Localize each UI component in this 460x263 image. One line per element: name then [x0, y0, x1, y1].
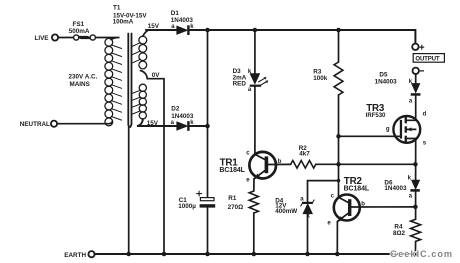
wire top rail from D1 to + output — [190, 30, 416, 44]
svg-text:LIVE: LIVE — [35, 35, 49, 42]
capacitor C1 1000u — [178, 191, 215, 210]
svg-text:1N4003: 1N4003 — [375, 78, 398, 85]
wire D4 to TR2 collector column — [308, 181, 339, 202]
svg-text:BC184L: BC184L — [344, 185, 370, 192]
svg-text:R1: R1 — [228, 195, 237, 202]
svg-text:RED: RED — [233, 81, 247, 88]
wire LED D3 to TR1 collector — [254, 87, 256, 154]
junction earth/TR2 emitter — [335, 252, 340, 257]
resistor R3 100k — [313, 62, 343, 95]
wire top rail left segment — [146, 29, 177, 31]
wire earth rail — [95, 253, 417, 255]
wire LIVE to transformer primary — [58, 37, 119, 39]
resistor R1 270ohm — [228, 191, 259, 213]
diode D5 1N4003 — [375, 71, 421, 104]
terminal NEUTRAL — [20, 121, 57, 129]
junction R2 wire / R3 column — [336, 162, 341, 167]
wire TR2 base to D6/R4 node — [351, 206, 415, 208]
junction top rail / rectifier — [205, 28, 210, 33]
svg-text:D1: D1 — [171, 10, 180, 17]
svg-text:d: d — [423, 112, 427, 118]
svg-text:T1: T1 — [113, 4, 121, 11]
wire rectifier column (top rail to D2 node) — [207, 30, 209, 126]
svg-text:NEUTRAL: NEUTRAL — [20, 121, 50, 128]
svg-text:270Ω: 270Ω — [228, 204, 244, 211]
svg-text:230V A.C.: 230V A.C. — [69, 74, 98, 81]
wire D6 to R4 — [415, 192, 417, 220]
wire secondary bottom to D2 — [137, 119, 177, 126]
OUTPUT label box — [413, 54, 444, 63]
svg-text:1N4003: 1N4003 — [171, 113, 194, 120]
junction earth/0V tap — [162, 252, 167, 257]
wire secondary top to rail — [143, 30, 149, 36]
junction gate wire — [336, 134, 341, 139]
svg-text:4k7: 4k7 — [299, 150, 310, 157]
transformer T1 core — [128, 34, 131, 128]
resistor R4 8R2 — [393, 219, 421, 241]
wire D5 to TR3 drain — [415, 96, 417, 121]
svg-text:FS1: FS1 — [73, 21, 85, 28]
wire transformer core screen to earth rail — [128, 127, 130, 254]
junction earth/core — [126, 252, 131, 257]
diode D1 1N4003 — [171, 10, 194, 35]
wire TR1 emitter to R1 — [253, 179, 255, 191]
wire TR1 base to R2 — [268, 163, 291, 165]
terminal output - — [413, 68, 424, 74]
label 230V A.C. MAINS — [69, 74, 98, 89]
svg-text:IRF530: IRF530 — [366, 113, 386, 119]
svg-text:BC184L: BC184L — [219, 167, 245, 174]
wire TR2 emitter to earth rail — [336, 221, 338, 254]
transformer T1 secondary lower winding — [132, 84, 146, 119]
svg-text:1N4003: 1N4003 — [384, 185, 407, 192]
wire R1 to earth rail — [253, 213, 255, 254]
svg-text:400mW: 400mW — [275, 208, 297, 215]
svg-text:D2: D2 — [171, 106, 180, 113]
svg-text:MAINS: MAINS — [70, 81, 90, 88]
svg-text:100k: 100k — [313, 75, 328, 82]
svg-text:g: g — [386, 127, 390, 133]
junction top rail / R3 — [336, 28, 341, 33]
svg-text:100mA: 100mA — [113, 19, 134, 26]
diode D2 1N4003 — [171, 106, 195, 131]
wire R2 to TR3 source node — [316, 163, 416, 165]
wire R3 to TR2 collector — [338, 95, 340, 197]
resistor R2 4k7 — [291, 145, 316, 168]
LED D3 2mA RED — [233, 68, 269, 93]
wire top rail to R3 — [338, 30, 340, 62]
svg-text:OUTPUT: OUTPUT — [415, 55, 439, 62]
wire TR3 source to D6 — [415, 139, 417, 181]
transistor TR1 BC184L — [219, 150, 281, 183]
diode D6 1N4003 — [384, 175, 419, 199]
wire D4 to earth rail — [307, 214, 309, 254]
mosfet TR3 IRF530 — [366, 103, 427, 146]
svg-text:D5: D5 — [379, 71, 388, 78]
svg-text:500mA: 500mA — [69, 28, 90, 35]
wire top rail to LED D3 — [254, 30, 256, 74]
transformer T1 primary winding — [105, 38, 122, 125]
junction R2 wire / right column — [413, 162, 418, 167]
junction earth/R4 — [413, 252, 418, 257]
junction earth/D4 — [305, 252, 310, 257]
wire output - to D5 — [415, 74, 417, 84]
svg-text:8Ω2: 8Ω2 — [393, 230, 406, 237]
fuse FS1 — [69, 21, 96, 40]
junction earth/R1 — [252, 252, 256, 257]
wire C1 to earth rail — [207, 208, 209, 254]
svg-text:GeekIC.com: GeekIC.com — [390, 249, 453, 259]
junction top rail / D3 — [253, 28, 258, 33]
transformer T1 labels — [113, 4, 148, 25]
terminal output + — [412, 44, 424, 50]
transistor TR2 BC184L — [327, 176, 369, 226]
junction D6/R4/TR2 base — [413, 205, 418, 210]
junction D2 cathode node — [205, 124, 210, 129]
zener diode D4 12V 400mW — [275, 196, 314, 219]
wire rectifier node to C1 — [207, 126, 209, 198]
wire D2 cathode to rectifier node — [190, 125, 208, 127]
wire to TR3 gate — [339, 135, 401, 137]
wire R4 to earth rail — [414, 241, 416, 254]
terminal EARTH — [64, 251, 94, 259]
svg-text:EARTH: EARTH — [64, 252, 86, 259]
wire NEUTRAL to transformer primary — [57, 122, 112, 124]
wire 0V centre tap to earth rail — [141, 71, 165, 254]
junction earth/C1 — [205, 252, 210, 257]
transformer T1 secondary upper winding — [132, 36, 147, 69]
junction D4 wire / collector column — [337, 179, 340, 182]
terminal LIVE — [35, 34, 59, 42]
svg-text:1000µ: 1000µ — [178, 203, 196, 210]
